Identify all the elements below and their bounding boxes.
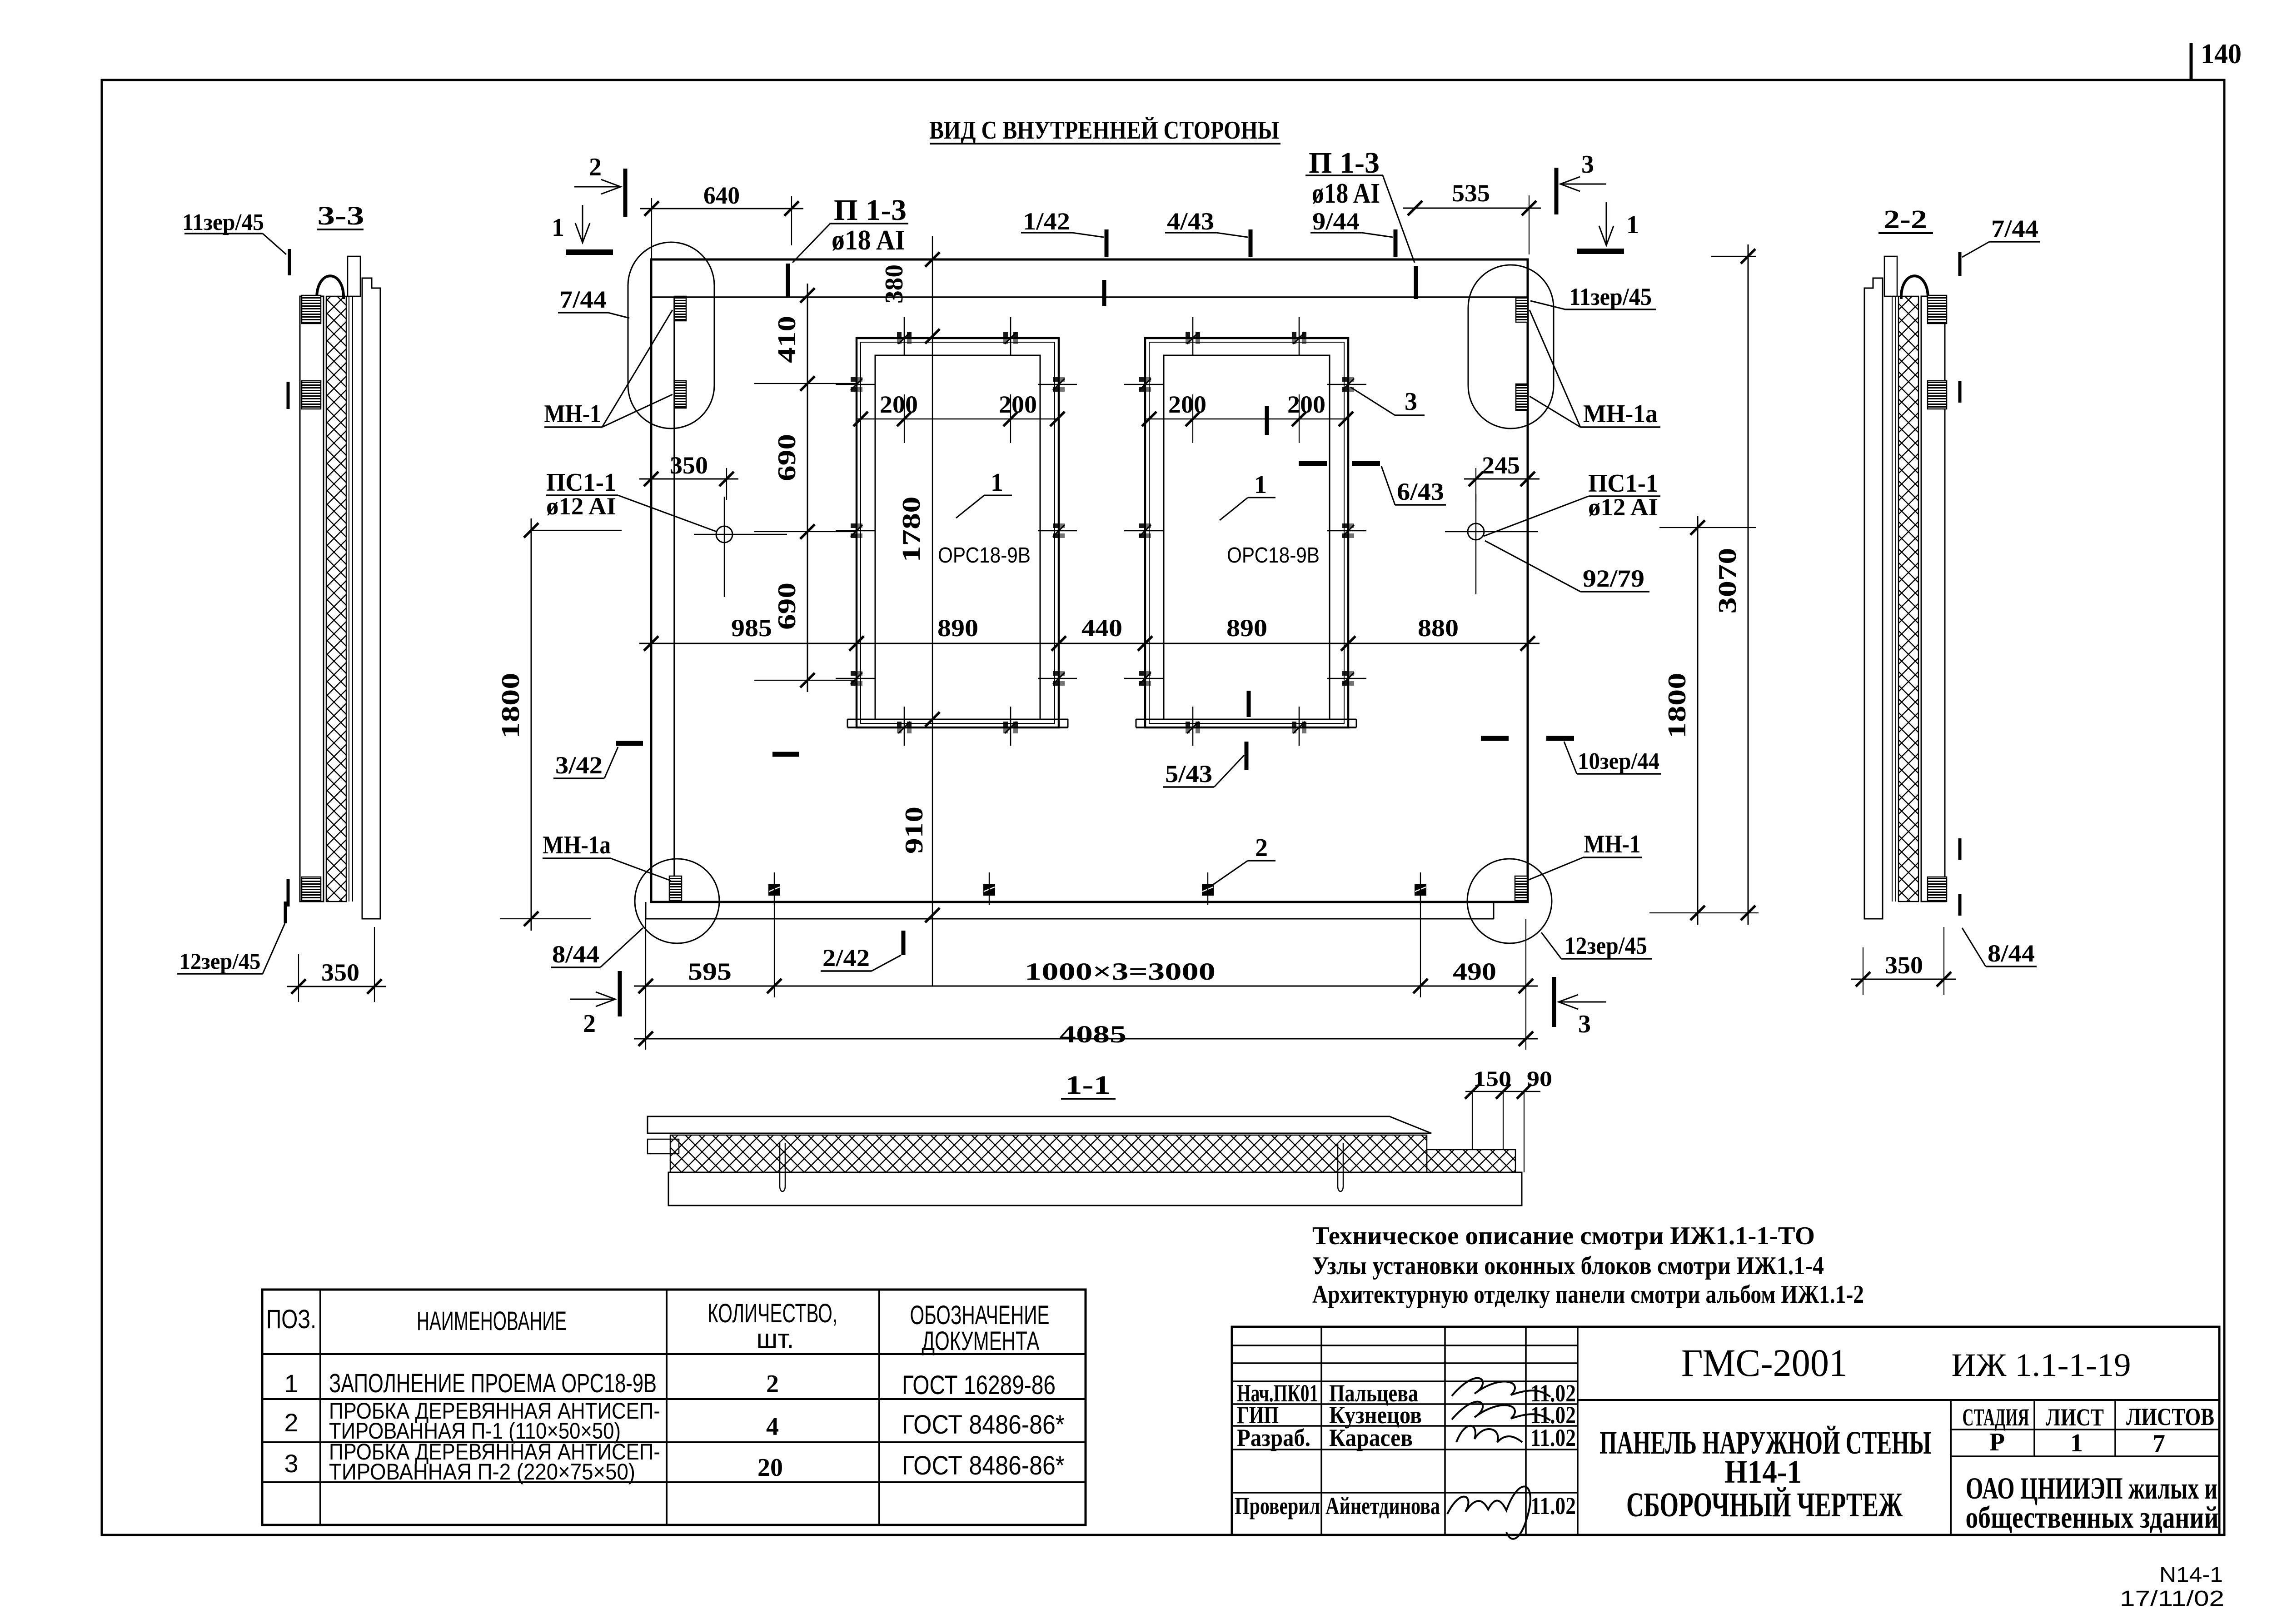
section 1-1 dims 150 90 <box>1465 1067 1552 1172</box>
lifting loop П1-3 left mark <box>786 264 790 297</box>
parts row 1 <box>284 1369 1056 1400</box>
svg-text:1/42: 1/42 <box>1023 208 1070 235</box>
dimension 245 right <box>1464 452 1540 500</box>
svg-text:890: 890 <box>937 614 978 642</box>
dimension 350 left <box>639 452 738 500</box>
svg-text:1780: 1780 <box>897 497 926 563</box>
title block right part lines <box>1578 1400 2219 1535</box>
window W2 poz label 1 <box>1220 471 1276 520</box>
section 2-2 cut tick b <box>1958 838 1962 860</box>
sig row ГИП <box>1237 1401 1576 1429</box>
label 7/44 left <box>558 286 629 318</box>
svg-text:Айнетдинова: Айнетдинова <box>1325 1492 1440 1519</box>
svg-text:9/44: 9/44 <box>1312 208 1360 235</box>
svg-text:1: 1 <box>284 1369 298 1398</box>
svg-text:440: 440 <box>1081 614 1122 642</box>
svg-text:1800: 1800 <box>497 673 525 739</box>
parts row 2 <box>284 1398 1065 1444</box>
section 1-1 pin a <box>780 1143 785 1191</box>
label 92/79 <box>1485 541 1649 592</box>
extension line 535 right <box>1529 195 1530 254</box>
svg-text:92/79: 92/79 <box>1583 565 1644 592</box>
node flag 3/42 <box>553 743 643 779</box>
section 1-1 pin b <box>1338 1143 1343 1191</box>
svg-text:МН-1а: МН-1а <box>543 831 611 859</box>
title block signature grid <box>1232 1327 2219 1535</box>
detail stadium top-right <box>1468 265 1554 428</box>
svg-text:ГОСТ 8486-86*: ГОСТ 8486-86* <box>902 1451 1065 1480</box>
window W2 type ОРС18-9В <box>1227 543 1320 568</box>
wood plug П-1 bottom x=2658 <box>1202 872 1213 905</box>
МН-1а block bottom-left <box>669 876 682 901</box>
node flag 10зер/44 <box>1481 738 1661 774</box>
section 3-3 outer layer <box>362 278 380 919</box>
cut mark 3 bottom <box>1554 977 1606 1038</box>
detail stadium top-left <box>628 242 714 428</box>
svg-text:Архитектурную отделку панели с: Архитектурную отделку панели смотри альб… <box>1312 1280 1864 1309</box>
svg-text:1-1: 1-1 <box>1065 1070 1111 1100</box>
extension lines bottom <box>646 904 1526 1050</box>
svg-text:90: 90 <box>1527 1067 1552 1091</box>
label 11зер/45 right <box>1530 283 1656 310</box>
svg-text:640: 640 <box>703 182 740 209</box>
header СТАДИЯ <box>1963 1404 2029 1431</box>
svg-text:2: 2 <box>284 1408 298 1437</box>
sig row Проверил <box>1235 1492 1576 1519</box>
svg-text:200: 200 <box>880 391 918 418</box>
svg-text:1000×3=3000: 1000×3=3000 <box>1025 958 1216 985</box>
svg-text:490: 490 <box>1453 958 1496 985</box>
label МН-1а left-bottom <box>543 831 671 881</box>
svg-text:Н14-1: Н14-1 <box>1724 1454 1802 1490</box>
section 2-2 insulation hatch <box>1898 296 1918 902</box>
svg-text:ОБОЗНАЧЕНИЕ: ОБОЗНАЧЕНИЕ <box>910 1300 1050 1330</box>
window opening W2 outer <box>1145 338 1348 727</box>
section 3-3 МН block bottom <box>302 877 321 902</box>
svg-text:1: 1 <box>2070 1429 2083 1457</box>
sheet number 140 <box>2201 39 2242 70</box>
section 3-3 cut tick a <box>287 382 290 409</box>
svg-text:350: 350 <box>321 959 359 986</box>
svg-text:СБОРОЧНЫЙ ЧЕРТЕЖ: СБОРОЧНЫЙ ЧЕРТЕЖ <box>1626 1486 1903 1524</box>
section 2-2 lifting hook <box>1901 276 1928 300</box>
svg-text:7/44: 7/44 <box>559 286 607 313</box>
node flag 9/44 <box>1310 208 1395 257</box>
parts table header ОБОЗНАЧЕНИЕ ДОКУМЕНТА <box>910 1300 1050 1356</box>
svg-text:ГОСТ 8486-86*: ГОСТ 8486-86* <box>902 1410 1065 1440</box>
svg-text:7: 7 <box>2152 1430 2165 1458</box>
svg-text:3070: 3070 <box>1714 548 1742 614</box>
window W1 wood plugs П-2 <box>836 317 1077 746</box>
svg-text:8/44: 8/44 <box>552 941 599 968</box>
dim 3070 right <box>1649 244 1759 925</box>
svg-text:1: 1 <box>991 468 1003 497</box>
svg-text:ø12 AI: ø12 AI <box>1588 493 1658 521</box>
section 1-1 inner slab <box>648 1116 1431 1133</box>
window opening W1 outer inner line <box>861 342 1055 723</box>
svg-text:8/44: 8/44 <box>1988 940 2035 967</box>
svg-text:4: 4 <box>766 1413 779 1441</box>
svg-text:МН-1: МН-1 <box>1584 830 1641 858</box>
svg-text:2: 2 <box>766 1370 779 1398</box>
cut mark 1 right <box>1577 202 1639 251</box>
svg-text:шт.: шт. <box>757 1324 794 1354</box>
node flag 1/42 <box>1021 208 1106 257</box>
svg-text:2: 2 <box>1255 834 1268 862</box>
svg-text:12зер/45: 12зер/45 <box>179 948 261 974</box>
section 3-3 lifting hook <box>317 276 344 300</box>
label 8/44 left-bottom <box>551 928 643 968</box>
svg-text:890: 890 <box>1226 614 1267 642</box>
section 2-2 МН block mid <box>1928 381 1947 409</box>
anchor ПС1-1 left circle <box>694 497 787 597</box>
section 2-2 outer tongue <box>1884 256 1897 296</box>
parts table grid <box>262 1290 1086 1525</box>
svg-text:910: 910 <box>900 807 928 854</box>
panel outline <box>651 259 1528 902</box>
svg-text:ГОСТ 16289-86: ГОСТ 16289-86 <box>902 1370 1056 1400</box>
section 1-1 insulation <box>670 1135 1427 1172</box>
panel inner top edge <box>651 296 1528 298</box>
sheet number tick <box>2190 43 2193 80</box>
detail circle bottom-left <box>635 859 719 943</box>
signature squiggle 1 <box>1452 1378 1550 1397</box>
svg-text:985: 985 <box>731 614 772 642</box>
label 3 plug <box>1350 387 1425 416</box>
label 12зер/45 left-bottom <box>177 902 285 974</box>
svg-text:ø18 AI: ø18 AI <box>1312 178 1380 209</box>
wood plug П-1 bottom x=2177 <box>984 872 995 905</box>
extension line left top <box>651 198 652 259</box>
section 3-3 cut tick b <box>287 879 290 907</box>
svg-text:11зер/45: 11зер/45 <box>182 209 264 235</box>
svg-text:350: 350 <box>670 452 708 479</box>
label МН-1 right-bottom <box>1527 830 1642 881</box>
lifting loop П1-3 right mark <box>1414 266 1418 299</box>
svg-text:ОРС18-9В: ОРС18-9В <box>938 543 1031 568</box>
dim chain 380-1780-910 <box>880 236 940 986</box>
signature squiggle 4 <box>1447 1486 1530 1539</box>
svg-text:595: 595 <box>688 958 732 985</box>
window W1 poz label 1 <box>956 468 1012 518</box>
section 3-3 МН block top <box>302 295 321 324</box>
svg-text:2: 2 <box>583 1010 596 1038</box>
svg-text:4085: 4085 <box>1059 1021 1126 1048</box>
svg-text:11.02: 11.02 <box>1530 1424 1576 1451</box>
svg-text:ДОКУМЕНТА: ДОКУМЕНТА <box>922 1326 1040 1356</box>
svg-text:10зер/44: 10зер/44 <box>1578 748 1659 774</box>
svg-text:1: 1 <box>552 214 564 242</box>
node flag 6/43 <box>1299 463 1446 505</box>
wood plug П-1 bottom x=1704 <box>769 872 780 905</box>
section 2-2 inner layer <box>1921 296 1945 902</box>
svg-text:П 1-3: П 1-3 <box>834 194 907 227</box>
extension line П1-3 left <box>791 196 792 245</box>
label 11зер/45 left <box>182 209 289 275</box>
doc code ИЖ 1.1-1-19 <box>1952 1347 2131 1383</box>
section 2-2 title <box>1878 204 1933 234</box>
section 3-3 outer tongue <box>348 256 360 296</box>
dimension 4085 <box>634 1021 1538 1048</box>
section 2-2 cut tick a <box>1958 381 1962 403</box>
svg-text:3: 3 <box>1405 388 1417 416</box>
cut mark 1 top <box>552 205 613 252</box>
window W2 wood plugs П-2 <box>1124 317 1366 746</box>
cut mark 3 top <box>1556 150 1606 214</box>
svg-text:ЛИСТОВ: ЛИСТОВ <box>2126 1403 2214 1430</box>
parts table header НАИМЕНОВАНИЕ <box>417 1306 567 1336</box>
window W1 type ОРС18-9В <box>938 543 1031 568</box>
dimension row 985-890-440-890-880 <box>639 614 1540 651</box>
section 3-3 dim 350 <box>287 927 386 1002</box>
svg-text:3: 3 <box>1578 1010 1591 1038</box>
section 2-2 МН block top <box>1928 295 1947 324</box>
svg-text:880: 880 <box>1418 614 1459 642</box>
dimension row 595-3000-490 <box>634 958 1538 993</box>
label 12зер/45 right-bottom <box>1541 932 1652 959</box>
tick below 1/42 <box>1102 280 1106 306</box>
stamp N14-1 <box>2159 1563 2223 1586</box>
tick inside W2 top <box>1265 406 1269 435</box>
label МН-1а right <box>1530 310 1660 428</box>
section 2-2 dim 350 <box>1851 927 1956 995</box>
svg-text:17/11/02: 17/11/02 <box>2120 1587 2224 1611</box>
section 2-2 outer layer <box>1864 278 1883 919</box>
sheet 1 <box>2070 1429 2083 1457</box>
label П 1-3 right <box>1305 146 1415 263</box>
node flag 2/42 <box>821 931 903 971</box>
cut mark 2 bottom <box>570 971 620 1038</box>
svg-text:245: 245 <box>1482 452 1520 479</box>
svg-text:ПОЗ.: ПОЗ. <box>266 1305 316 1334</box>
svg-text:1: 1 <box>1254 471 1267 499</box>
section 2-2 МН block bottom <box>1928 877 1947 902</box>
note line 3 <box>1312 1280 1864 1309</box>
title СБОРОЧНЫЙ ЧЕРТЕЖ <box>1626 1486 1903 1524</box>
note line 2 <box>1312 1252 1824 1280</box>
section 3-3 insulation hatch <box>326 296 346 902</box>
section 3-3 title <box>317 201 364 230</box>
svg-text:Р: Р <box>1989 1428 2005 1456</box>
note line 1 <box>1312 1222 1815 1250</box>
svg-text:N14-1: N14-1 <box>2159 1563 2223 1586</box>
svg-text:3/42: 3/42 <box>555 752 603 779</box>
node flag 5/43 <box>1163 742 1246 787</box>
svg-text:3: 3 <box>284 1449 298 1478</box>
svg-text:140: 140 <box>2201 39 2242 70</box>
parts table header КОЛИЧЕСТВО шт. <box>708 1299 837 1354</box>
dim chain 410-690-690 <box>754 284 857 692</box>
svg-text:П 1-3: П 1-3 <box>1309 146 1380 179</box>
svg-text:Проверил: Проверил <box>1235 1492 1320 1519</box>
svg-text:2/42: 2/42 <box>822 944 870 971</box>
svg-text:7/44: 7/44 <box>1991 215 2038 242</box>
svg-text:2-2: 2-2 <box>1883 204 1927 234</box>
stamp date 17/11/02 <box>2120 1587 2224 1611</box>
org line 2 <box>1966 1500 2219 1534</box>
label ПС1-1 right <box>1484 469 1660 536</box>
svg-text:ЗАПОЛНЕНИЕ ПРОЕМА ОРС18-9В: ЗАПОЛНЕНИЕ ПРОЕМА ОРС18-9В <box>329 1369 657 1398</box>
svg-text:20: 20 <box>757 1454 783 1482</box>
section 2-2 air gap lines <box>1892 296 1896 902</box>
svg-text:3-3: 3-3 <box>318 201 364 230</box>
title ПАНЕЛЬ НАРУЖНОЙ СТЕНЫ <box>1599 1425 1931 1461</box>
cut mark 2 top <box>574 153 625 217</box>
section 2-2 cut tick c <box>1958 894 1962 916</box>
МН-1a block top-right a <box>1516 298 1528 322</box>
section 1-1 left notch <box>648 1139 679 1154</box>
svg-text:ø12 AI: ø12 AI <box>546 493 616 520</box>
svg-text:2: 2 <box>589 153 602 181</box>
stray tick mid <box>772 752 799 757</box>
svg-text:6/43: 6/43 <box>1397 478 1444 505</box>
section 3-3 inner layer <box>300 296 324 902</box>
sheets 7 <box>2152 1430 2165 1458</box>
svg-text:МН-1а: МН-1а <box>1583 400 1658 428</box>
label П 1-3 left <box>792 194 908 263</box>
svg-text:ГМС-2001: ГМС-2001 <box>1681 1341 1848 1385</box>
svg-text:1800: 1800 <box>1663 673 1691 739</box>
dim 1800 right <box>1659 516 1756 925</box>
dimension 200 row W2 <box>1142 391 1353 443</box>
svg-text:ОРС18-9В: ОРС18-9В <box>1227 543 1320 568</box>
svg-text:Техническое описание смотри ИЖ: Техническое описание смотри ИЖ1.1-1-ТО <box>1312 1222 1815 1250</box>
svg-text:690: 690 <box>773 583 801 630</box>
svg-text:200: 200 <box>999 391 1037 418</box>
svg-text:СТАДИЯ: СТАДИЯ <box>1963 1404 2029 1431</box>
svg-text:11зер/45: 11зер/45 <box>1569 283 1652 310</box>
title Н14-1 <box>1724 1454 1802 1490</box>
header ЛИСТОВ <box>2126 1403 2214 1430</box>
window opening W1 outer <box>857 338 1059 727</box>
detail circle bottom-right <box>1467 859 1552 943</box>
section 1-1 outer slab <box>668 1172 1522 1206</box>
section 1-1 insulation step <box>1427 1150 1515 1172</box>
anchor ПС1-1 right circle <box>1445 494 1538 594</box>
svg-text:НАИМЕНОВАНИЕ: НАИМЕНОВАНИЕ <box>417 1306 567 1336</box>
svg-text:200: 200 <box>1168 391 1206 418</box>
svg-text:3: 3 <box>1581 150 1594 179</box>
svg-text:4/43: 4/43 <box>1167 208 1214 235</box>
svg-text:Разраб.: Разраб. <box>1237 1424 1310 1451</box>
label МН-1 left <box>544 310 673 428</box>
svg-text:МН-1: МН-1 <box>544 400 601 428</box>
МН-1 block top-left b <box>674 381 686 408</box>
window opening W2 outer inner line <box>1149 342 1344 723</box>
wood plug П-1 bottom x=3126 <box>1415 872 1426 905</box>
svg-text:ТИРОВАННАЯ П-2 (220×75×50): ТИРОВАННАЯ П-2 (220×75×50) <box>329 1459 635 1485</box>
parts table header ПОЗ. <box>266 1305 316 1334</box>
section 3-3 МН block mid <box>302 381 321 409</box>
svg-text:Узлы установки оконных блоков: Узлы установки оконных блоков смотри ИЖ1… <box>1312 1252 1824 1280</box>
svg-text:ø18 AI: ø18 AI <box>832 225 905 256</box>
header ЛИСТ <box>2046 1404 2104 1431</box>
dimension 535 <box>1403 179 1541 215</box>
svg-text:410: 410 <box>773 316 801 363</box>
window opening W2 inner frame <box>1164 355 1330 719</box>
svg-text:5/43: 5/43 <box>1165 760 1212 787</box>
МН-1 block bottom-right <box>1515 876 1527 901</box>
МН-1 block top-left a <box>674 296 686 321</box>
svg-text:1: 1 <box>1626 211 1639 239</box>
dimension 200 row W1 <box>853 391 1065 443</box>
section 3-3 air gap lines <box>349 296 353 902</box>
view title <box>929 116 1280 144</box>
label 2 plugs <box>1211 834 1276 886</box>
window W2 sill <box>1136 719 1356 727</box>
parts row 3 <box>284 1439 1065 1485</box>
signature squiggle 3 <box>1456 1426 1522 1442</box>
label 7/44 right <box>1960 215 2040 276</box>
node flag 4/43 <box>1165 208 1251 257</box>
tick inside W2 bottom <box>1247 691 1251 717</box>
svg-text:ЛИСТ: ЛИСТ <box>2046 1404 2104 1431</box>
svg-text:Карасев: Карасев <box>1329 1424 1413 1451</box>
МН-1a block top-right b <box>1516 384 1528 410</box>
svg-text:ИЖ 1.1-1-19: ИЖ 1.1-1-19 <box>1952 1347 2131 1383</box>
label ПС1-1 left <box>546 468 717 532</box>
dimension 640 <box>640 182 803 216</box>
panel bottom outer layer <box>646 902 1494 919</box>
svg-text:общественных зданий: общественных зданий <box>1966 1500 2219 1534</box>
svg-text:200: 200 <box>1287 391 1325 418</box>
org line 1 <box>1966 1471 2217 1505</box>
svg-text:690: 690 <box>773 434 801 481</box>
sig row Разраб. <box>1237 1424 1576 1451</box>
label 8/44 right-bottom <box>1962 928 2037 967</box>
window W1 sill <box>847 719 1068 727</box>
stage Р <box>1989 1428 2005 1456</box>
sig row Нач.ПК01 <box>1237 1380 1576 1407</box>
svg-text:380: 380 <box>880 264 908 304</box>
doc code ГМС-2001 <box>1681 1341 1848 1385</box>
window opening W1 inner frame <box>875 355 1040 719</box>
signature squiggle 2 <box>1452 1402 1550 1420</box>
dim 1800 left <box>497 518 622 931</box>
svg-text:11.02: 11.02 <box>1530 1492 1576 1519</box>
section 1-1 title <box>1061 1070 1116 1100</box>
svg-text:ВИД С ВНУТРЕННЕЙ СТОРОНЫ: ВИД С ВНУТРЕННЕЙ СТОРОНЫ <box>929 116 1279 144</box>
svg-text:350: 350 <box>1885 951 1923 979</box>
panel inner left edge <box>673 297 675 902</box>
svg-text:535: 535 <box>1452 179 1490 207</box>
svg-text:12зер/45: 12зер/45 <box>1564 932 1647 959</box>
